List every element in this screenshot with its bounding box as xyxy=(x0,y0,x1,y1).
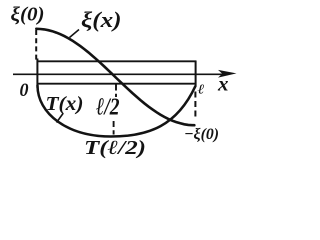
rod left edge xyxy=(36,59,38,89)
rod bottom edge xyxy=(37,83,197,85)
svg-text:−ξ(0): −ξ(0) xyxy=(184,124,219,143)
svg-text:ℓ: ℓ xyxy=(198,82,205,97)
x-axis xyxy=(13,70,237,78)
svg-text:ξ(x): ξ(x) xyxy=(81,7,122,32)
svg-text:T(x): T(x) xyxy=(46,93,84,115)
xi(x) displacement curve xyxy=(36,29,194,125)
dashed line at x=l xyxy=(194,92,196,120)
svg-text:ℓ/2: ℓ/2 xyxy=(96,94,120,121)
svg-text:x: x xyxy=(217,74,229,96)
svg-text:T(ℓ/2): T(ℓ/2) xyxy=(84,137,146,159)
svg-text:ξ(0): ξ(0) xyxy=(11,5,45,26)
leader line for xi(x) label xyxy=(70,30,80,38)
dashed line at l/2 lower xyxy=(113,121,115,135)
rod right edge xyxy=(195,61,197,87)
dashed line at l/2 upper xyxy=(115,85,117,98)
svg-text:0: 0 xyxy=(20,80,29,101)
leader line for T(x) label xyxy=(57,114,64,123)
rod top edge xyxy=(37,60,197,62)
dashed amplitude line at x=0 xyxy=(35,30,37,60)
T(x) curve xyxy=(38,86,196,137)
